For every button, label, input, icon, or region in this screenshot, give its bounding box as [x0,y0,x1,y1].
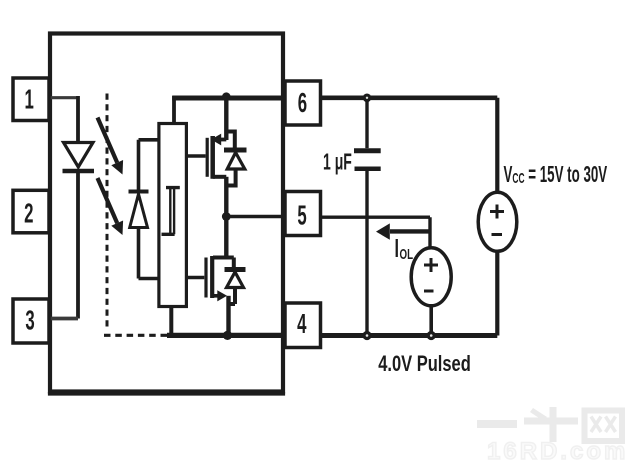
svg-text:VCC = 15V to 30V: VCC = 15V to 30V [504,161,608,187]
svg-text:6: 6 [298,87,307,119]
svg-text:16RD.com: 16RD.com [487,438,628,463]
svg-text:2: 2 [24,197,33,229]
svg-text:OL: OL [400,246,414,263]
svg-text:3: 3 [25,304,34,336]
svg-text:4.0V Pulsed: 4.0V Pulsed [378,352,471,377]
svg-text:4: 4 [297,308,306,340]
svg-text:1: 1 [25,83,34,115]
svg-text:1 μF: 1 μF [323,150,352,175]
svg-text:I: I [395,233,399,263]
svg-text:5: 5 [297,199,306,231]
